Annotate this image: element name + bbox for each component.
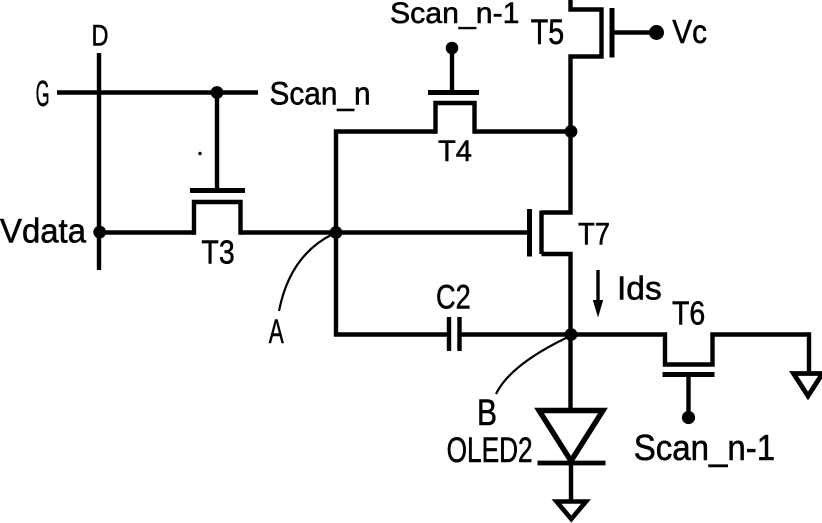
- wire G scan line horizontal: [57, 90, 258, 94]
- svg-text:T4: T4: [438, 135, 472, 168]
- junction dot Vdata/D: [93, 226, 106, 239]
- node A junction dot: [330, 226, 343, 239]
- wire D data line vertical: [97, 53, 101, 270]
- svg-text:C2: C2: [436, 278, 471, 316]
- svg-text:T7: T7: [578, 215, 610, 251]
- transistor T3: [190, 191, 245, 235]
- svg-text:OLED2: OLED2: [447, 431, 533, 470]
- wire node A vertical: [334, 130, 338, 337]
- svg-text:T6: T6: [672, 295, 705, 332]
- wire T4 drain to junction: [475, 129, 572, 133]
- svg-text:Scan_n: Scan_n: [270, 75, 371, 111]
- svg-text:Scan_n-1: Scan_n-1: [634, 427, 776, 468]
- junction dot G/Scan_n gate tap: [211, 86, 224, 99]
- current arrow Ids: [593, 270, 603, 318]
- svg-text:B: B: [477, 392, 497, 433]
- svg-text:T5: T5: [531, 13, 564, 52]
- wire C2 right to node B: [461, 332, 571, 336]
- wire T3 gate lead: [215, 93, 219, 189]
- ground symbol right: [794, 374, 822, 397]
- ground symbol OLED: [557, 502, 587, 520]
- svg-text:Scan_n-1: Scan_n-1: [390, 0, 520, 30]
- wire T6 drain to ground: [807, 332, 811, 373]
- transistor T4: [428, 50, 479, 134]
- transistor T6: [571, 335, 809, 413]
- scan speck artifact: [198, 152, 201, 155]
- svg-text:T3: T3: [201, 234, 234, 271]
- transistor T5: [571, 0, 653, 132]
- node A pointer curve: [279, 234, 333, 311]
- wire T3 drain to T7 gate (through node A): [241, 230, 528, 234]
- svg-text:Vdata: Vdata: [0, 213, 86, 251]
- terminal dot Vc: [649, 25, 664, 40]
- svg-text:A: A: [269, 313, 284, 351]
- svg-text:Vc: Vc: [672, 13, 707, 50]
- svg-text:D: D: [92, 20, 109, 53]
- wire Vdata to T3 source: [99, 230, 194, 234]
- wire C2 left: [334, 332, 447, 336]
- svg-text:G: G: [36, 73, 50, 114]
- terminal dot Scan_n-1 top gate: [446, 42, 459, 55]
- capacitor C2: [449, 317, 460, 351]
- wire T4 source: [334, 129, 436, 133]
- junction dot T4/T5 drain node: [565, 125, 578, 138]
- node B junction dot: [565, 328, 578, 341]
- node B pointer curve: [496, 338, 567, 395]
- svg-text:Ids: Ids: [617, 269, 662, 306]
- transistor T7: [530, 132, 571, 335]
- diode OLED2: [538, 411, 606, 502]
- wire node B to OLED: [568, 335, 572, 411]
- terminal dot Scan_n-1 bottom gate: [682, 411, 695, 424]
